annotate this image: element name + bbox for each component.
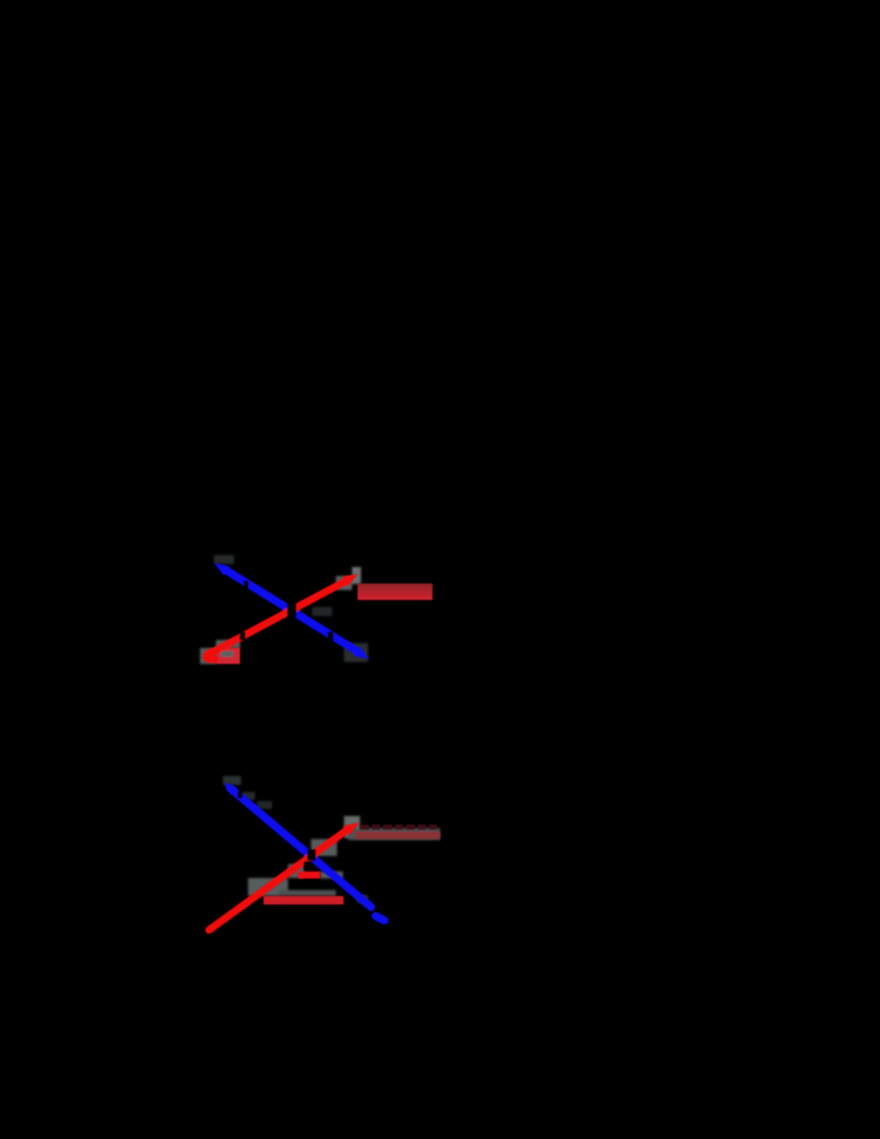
red box at tail of v2 bbox=[216, 648, 240, 665]
faint halo near blue lower end bbox=[344, 643, 368, 662]
gray notch inside red box bbox=[221, 651, 233, 657]
red segment A fig2 bbox=[298, 872, 320, 879]
black text notch on blue figure 2 bbox=[238, 791, 242, 798]
gray continuation of segment A bbox=[320, 872, 343, 879]
figure 2 drawing bbox=[209, 783, 440, 931]
faint halo near blue upper fig2 bbox=[223, 776, 241, 785]
halo block mid red diagonal fig2 bbox=[311, 839, 337, 856]
vector v1 blue arrowhead lower-right bbox=[353, 646, 369, 659]
red label bar figure 1 bbox=[358, 584, 433, 601]
halo staircase block low on red diagonal bbox=[248, 878, 288, 896]
halo block above red box bbox=[216, 640, 240, 648]
halo block around red arrowhead fig2 bbox=[344, 816, 360, 838]
figure 1 drawing bbox=[206, 563, 369, 664]
vector w2 red arrowhead upper-right bbox=[343, 823, 359, 835]
vector v1 blue arrowhead upper-left bbox=[214, 563, 230, 576]
faint halo near blue arrow fig2 bbox=[357, 895, 368, 903]
black text notch on red figure 2 below crossing bbox=[304, 862, 312, 870]
vector w1 blue arrowhead upper-left bbox=[224, 783, 238, 796]
gray underlay of dark bar fig2 bbox=[348, 828, 440, 840]
vector w1 blue detached arrowhead lower-right bbox=[376, 916, 385, 921]
red hook curl at tail of v2 bbox=[206, 652, 215, 660]
faint halo right of blue fig2 b bbox=[257, 801, 272, 809]
halo block left of red arrowhead bbox=[336, 576, 352, 590]
black text gap at crossing figure 1 bbox=[288, 603, 297, 618]
vector w1 blue shaft fig2 bbox=[230, 788, 371, 907]
vector v2 red arrowhead upper-right bbox=[342, 574, 358, 586]
black text notch on blue figure 1 upper bbox=[244, 581, 248, 590]
faint halo right of crossing fig1 bbox=[312, 607, 332, 616]
red segment B fig2 bbox=[264, 896, 344, 905]
faint dark red text row fig2 bbox=[360, 825, 437, 830]
faint halo near blue upper end bbox=[214, 555, 234, 564]
figure 2 : jpeg halo blocks bbox=[223, 776, 440, 903]
figure 1 : jpeg halo blocks bbox=[200, 555, 368, 664]
vector v2 red shaft bbox=[211, 581, 346, 653]
halo staircase block on red diagonal bbox=[288, 864, 304, 878]
halo block left of red hook bbox=[200, 648, 216, 664]
black text notch on red figure 1 lower-left bbox=[240, 632, 245, 640]
vector v1 blue shaft bbox=[224, 569, 360, 653]
black text gap at crossing figure 2 bbox=[308, 850, 316, 861]
faint halo right of blue fig2 a bbox=[242, 792, 255, 800]
halo band above segment B bbox=[279, 890, 336, 896]
dark red label bar fig2 bbox=[355, 832, 440, 840]
halo block above red arrowhead bbox=[352, 567, 361, 584]
vector w2 red shaft fig2 bbox=[209, 830, 347, 930]
black text notch on blue figure 1 lower bbox=[328, 632, 333, 641]
